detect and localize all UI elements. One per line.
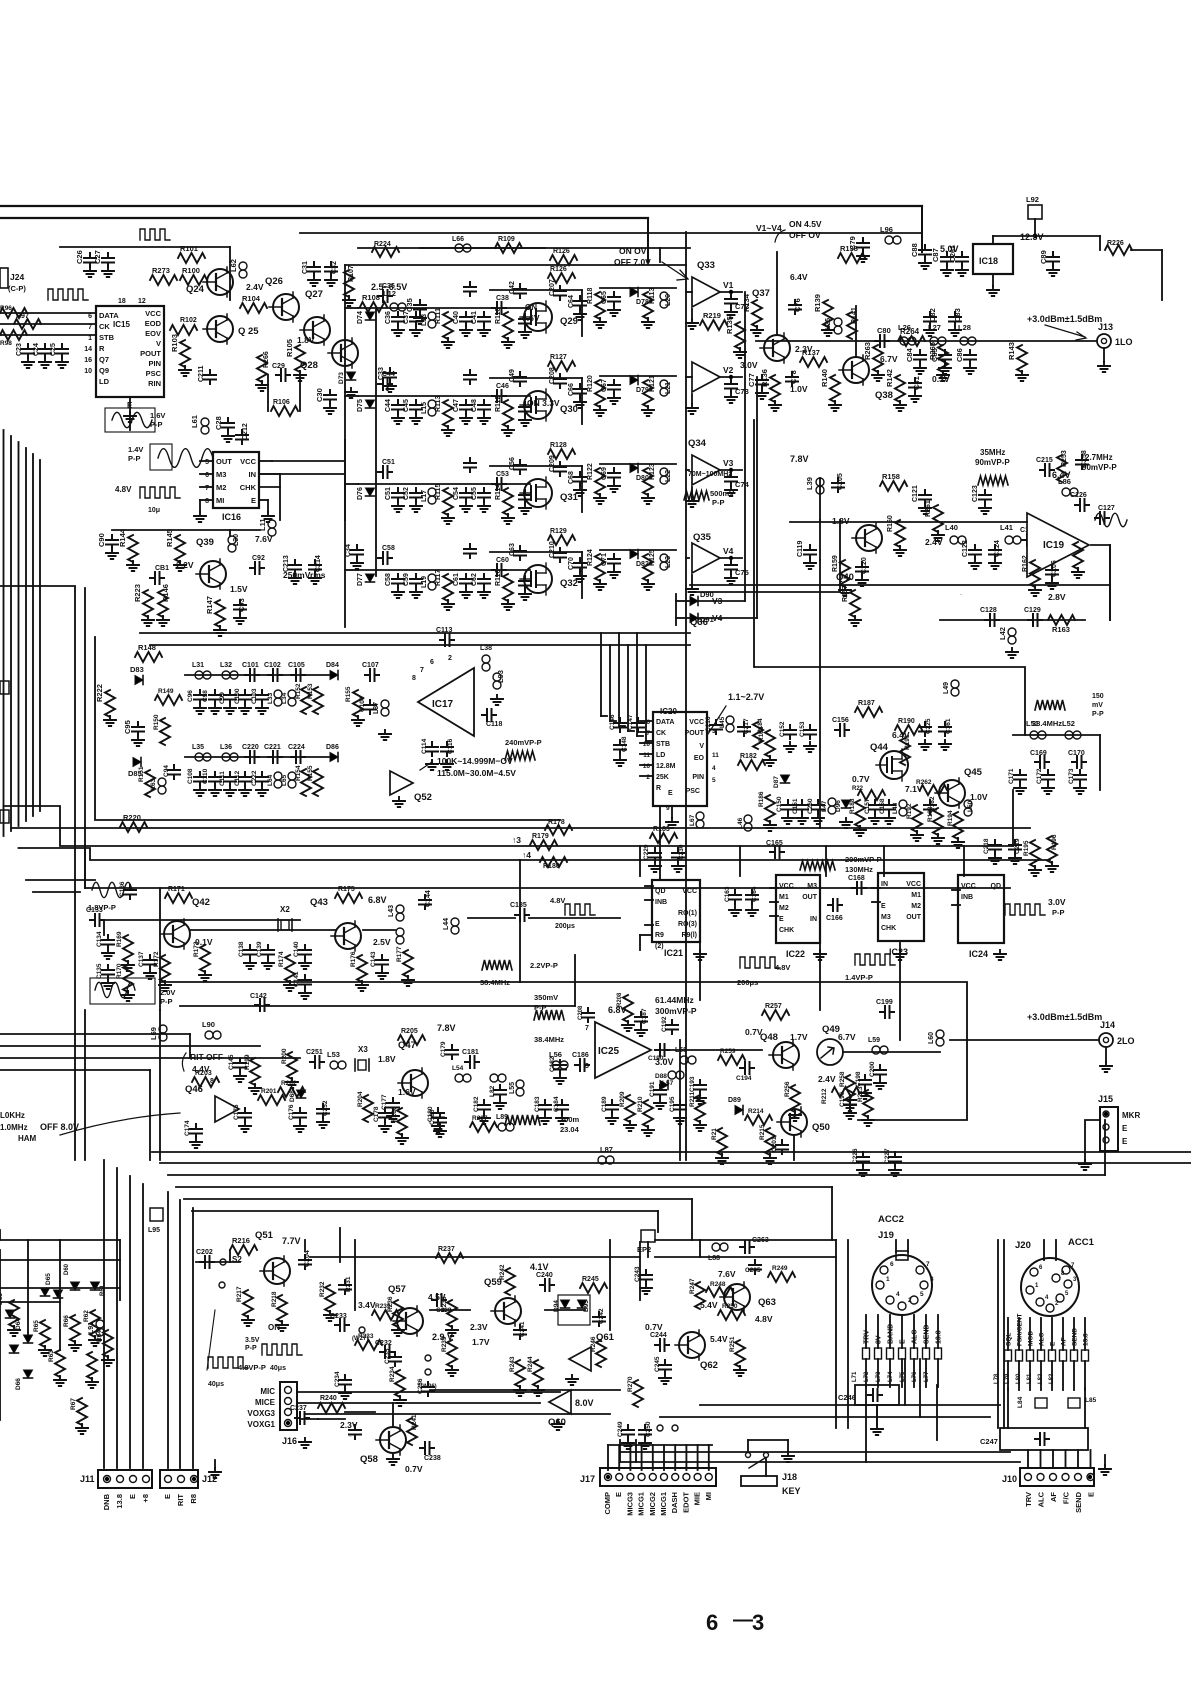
svg-text:C156: C156 [832,717,849,724]
svg-text:R246: R246 [590,1336,597,1352]
svg-text:R147: R147 [205,596,214,614]
svg-text:R211: R211 [689,1091,696,1107]
svg-text:C51: C51 [385,487,392,500]
svg-text:R179: R179 [532,833,549,840]
svg-text:Q50: Q50 [812,1122,830,1133]
svg-text:R117: R117 [435,570,442,586]
svg-text:Q30: Q30 [560,404,578,415]
svg-text:STB: STB [99,333,115,342]
svg-text:ACC2: ACC2 [878,1214,904,1225]
svg-text:C30: C30 [315,388,324,402]
svg-text:7: 7 [88,324,92,331]
svg-text:Q33: Q33 [697,260,715,271]
svg-text:R125: R125 [649,549,656,566]
svg-text:10μ: 10μ [148,507,160,514]
svg-text:L79: L79 [1005,1373,1011,1384]
svg-text:MI: MI [216,496,224,505]
svg-text:MOD: MOD [1028,1331,1035,1346]
svg-text:MICG2: MICG2 [648,1492,657,1516]
svg-text:C66: C66 [568,383,575,396]
svg-text:C58: C58 [385,573,392,586]
svg-text:R239: R239 [441,1336,448,1352]
svg-text:L21: L21 [665,382,672,394]
svg-text:CHK: CHK [779,927,794,934]
svg-text:R121: R121 [649,375,656,392]
svg-text:1: 1 [88,335,92,342]
svg-text:ON: ON [268,1323,280,1332]
svg-text:7: 7 [205,485,209,492]
svg-text:DATA: DATA [99,311,119,320]
svg-text:4.8VP-P: 4.8VP-P [238,1363,266,1372]
svg-text:16: 16 [643,763,651,770]
svg-text:C85: C85 [930,348,939,362]
svg-text:R204: R204 [357,1091,364,1107]
svg-text:V: V [156,339,161,348]
svg-text:12: 12 [138,298,146,305]
svg-text:C110: C110 [202,768,209,784]
svg-text:PSC: PSC [146,369,162,378]
svg-text:6.4V: 6.4V [892,730,910,740]
svg-text:C174: C174 [184,1120,191,1136]
svg-text:L25: L25 [825,318,832,330]
svg-text:C124: C124 [994,540,1001,557]
svg-text:1.7V: 1.7V [790,1032,808,1042]
svg-text:L42: L42 [998,627,1007,640]
svg-text:1.5V: 1.5V [230,584,248,594]
svg-text:J11: J11 [80,1474,95,1484]
svg-text:MIC: MIC [260,1387,275,1396]
svg-text:L76: L76 [912,1371,918,1382]
svg-text:C233: C233 [330,1313,347,1320]
svg-text:QD: QD [991,883,1002,890]
svg-text:R158: R158 [882,472,900,481]
svg-text:E: E [128,1494,137,1499]
svg-text:90mVP-P: 90mVP-P [975,458,1010,467]
svg-text:C140: C140 [293,941,300,957]
svg-text:R102: R102 [180,317,197,324]
svg-text:TRV: TRV [864,1330,871,1344]
svg-text:Q 25: Q 25 [238,326,259,337]
svg-text:E: E [668,790,673,797]
svg-text:DNB: DNB [102,1493,111,1510]
svg-text:R63: R63 [48,1350,55,1362]
svg-text:IC19: IC19 [1043,540,1065,551]
svg-text:R202: R202 [281,1080,297,1087]
svg-text:Q29: Q29 [560,316,578,327]
svg-text:C35: C35 [405,298,414,312]
svg-text:R217: R217 [236,1286,243,1302]
svg-text:2.4V: 2.4V [246,282,264,292]
svg-text:L17: L17 [421,490,428,502]
svg-text:D60: D60 [64,1263,70,1275]
svg-text:VCC: VCC [906,881,921,888]
svg-text:C194: C194 [736,1075,752,1082]
svg-text:CHK: CHK [240,483,257,492]
svg-text:Q51: Q51 [255,1230,274,1241]
svg-text:7.6V: 7.6V [255,534,273,544]
svg-text:C89: C89 [1039,250,1048,264]
svg-text:C24: C24 [33,343,40,356]
svg-text:R109: R109 [498,236,515,243]
svg-text:R196: R196 [1051,834,1058,850]
svg-text:M1: M1 [779,894,789,901]
svg-text:Q34: Q34 [688,438,707,449]
svg-text:R245: R245 [582,1276,599,1283]
svg-text:C242: C242 [598,1308,605,1324]
svg-text:MICG1: MICG1 [637,1492,646,1516]
svg-text:+8: +8 [141,1494,150,1503]
svg-text:Q7: Q7 [99,355,109,364]
svg-text:R136: R136 [760,369,769,387]
svg-text:23.04: 23.04 [560,1125,580,1134]
svg-text:R190: R190 [898,718,915,725]
svg-text:R115: R115 [435,484,442,500]
svg-text:R240: R240 [320,1395,337,1402]
svg-text:C185: C185 [510,902,527,909]
svg-text:C170: C170 [1068,750,1085,757]
svg-text:C200: C200 [869,1061,876,1077]
svg-text:C25: C25 [50,343,57,356]
svg-text:1: 1 [1035,1283,1039,1289]
svg-text:C229: C229 [643,844,650,860]
svg-text:L15: L15 [421,402,428,414]
svg-text:L63: L63 [150,778,157,790]
svg-text:E: E [1087,1492,1096,1497]
svg-text:Q26: Q26 [265,276,283,287]
svg-text:R253: R253 [1061,450,1068,467]
svg-text:R226: R226 [1107,240,1124,247]
svg-text:E: E [1122,1137,1128,1146]
svg-text:R148: R148 [138,643,156,652]
svg-text:C182: C182 [473,1096,480,1112]
svg-text:4.8V: 4.8V [775,963,790,972]
svg-text:D76: D76 [357,487,364,500]
svg-text:R142: R142 [885,369,894,387]
svg-text:C171: C171 [1008,768,1015,784]
svg-text:L43: L43 [388,905,395,917]
svg-text:R195: R195 [1023,840,1030,856]
svg-text:E: E [900,1339,907,1344]
svg-text:4: 4 [712,765,716,772]
svg-text:P-P: P-P [534,1003,547,1012]
svg-text:7.8V: 7.8V [437,1023,456,1033]
svg-text:VCC: VCC [682,888,697,895]
svg-text:7.6V: 7.6V [718,1269,736,1279]
svg-text:C201: C201 [771,1136,778,1152]
svg-text:L82: L82 [1038,1373,1044,1384]
svg-text:16: 16 [84,357,92,364]
svg-text:R259: R259 [720,1048,736,1055]
svg-text:C23: C23 [16,343,23,356]
svg-text:EOV: EOV [145,329,161,338]
svg-text:C61: C61 [453,573,460,586]
svg-text:L13: L13 [421,314,428,326]
svg-text:R223: R223 [133,584,142,602]
svg-text:R183: R183 [653,826,670,833]
svg-text:R140: R140 [820,369,829,387]
svg-text:C93: C93 [237,598,246,612]
svg-text:D65: D65 [45,1273,52,1285]
svg-text:C144: C144 [425,890,432,907]
svg-text:6: 6 [706,1610,718,1635]
svg-text:L82: L82 [489,1085,496,1097]
svg-text:R262: R262 [916,779,932,786]
svg-text:R100: R100 [182,266,200,275]
svg-text:6.4V: 6.4V [790,272,808,282]
svg-text:R174: R174 [278,951,285,967]
svg-text:6: 6 [646,719,650,726]
svg-text:MICE: MICE [255,1398,276,1407]
svg-text:C94: C94 [163,765,170,777]
svg-text:C249: C249 [617,1421,624,1437]
svg-text:C81: C81 [912,376,921,390]
svg-text:C118: C118 [486,721,502,728]
svg-text:↑4: ↑4 [522,850,531,860]
svg-text:11: 11 [712,752,719,759]
svg-text:2: 2 [448,655,452,662]
svg-text:C178: C178 [373,1106,380,1122]
svg-text:J19: J19 [878,1230,894,1241]
svg-text:Q39: Q39 [196,537,214,548]
svg-text:R154: R154 [295,765,302,781]
svg-text:C172: C172 [1036,768,1043,784]
svg-text:FSK/CENT: FSK/CENT [1017,1313,1024,1346]
svg-text:R163: R163 [1052,625,1070,634]
svg-text:R224: R224 [374,241,391,248]
svg-text:C38: C38 [496,295,509,302]
svg-text:C260: C260 [807,798,814,814]
svg-text:C168: C168 [848,875,865,882]
svg-text:+3.0dBm±1.5dBm: +3.0dBm±1.5dBm [1027,1012,1102,1022]
svg-text:C173: C173 [1068,768,1075,784]
svg-text:R103: R103 [170,334,179,352]
svg-text:12.8M: 12.8M [656,763,676,770]
svg-text:C136: C136 [119,881,126,897]
svg-text:J17: J17 [580,1474,595,1484]
svg-text:VCC: VCC [145,309,161,318]
svg-text:C74: C74 [735,480,750,489]
svg-text:C122: C122 [962,540,969,557]
svg-text:C237: C237 [349,1436,352,1438]
svg-text:AF: AF [1061,1337,1068,1346]
svg-text:RO(3): RO(3) [678,921,697,928]
svg-text:MI: MI [704,1492,713,1500]
svg-text:C62: C62 [471,573,478,586]
svg-text:C106: C106 [359,696,366,712]
svg-text:COMP: COMP [603,1492,612,1515]
svg-text:V: V [699,743,704,750]
svg-text:Q57: Q57 [388,1284,406,1295]
svg-text:C247: C247 [980,1437,998,1446]
svg-text:100K~14.999M−OV: 100K~14.999M−OV [437,756,513,766]
svg-text:R263: R263 [863,342,872,360]
svg-text:C138: C138 [238,941,245,957]
svg-text:3.4V: 3.4V [358,1300,376,1310]
svg-text:L64: L64 [267,774,274,786]
svg-text:C32: C32 [331,261,338,274]
svg-text:ON: ON [525,303,537,312]
svg-text:Q24: Q24 [186,284,205,295]
svg-text:R258: R258 [839,1071,846,1087]
svg-text:C84: C84 [905,347,914,362]
svg-text:C90: C90 [97,533,106,547]
svg-text:C108: C108 [187,768,194,784]
svg-text:2.2V: 2.2V [176,560,194,570]
svg-text:35MHz: 35MHz [980,448,1005,457]
svg-text:R112: R112 [495,396,502,412]
svg-text:C60: C60 [496,557,509,564]
svg-text:CK: CK [656,730,666,737]
svg-text:Q45: Q45 [964,767,983,778]
svg-text:L20: L20 [665,294,672,306]
svg-text:VCC: VCC [961,883,976,890]
svg-text:R151: R151 [138,766,145,782]
svg-text:R66: R66 [63,1315,70,1327]
svg-text:R266: R266 [263,351,270,368]
svg-text:D77: D77 [357,573,364,586]
svg-text:1.8V: 1.8V [378,1054,396,1064]
svg-text:2LO: 2LO [1117,1036,1135,1046]
svg-text:R108: R108 [362,293,380,302]
svg-text:PIN: PIN [148,359,161,368]
svg-text:C29: C29 [272,363,285,370]
svg-text:VCC: VCC [689,719,704,726]
svg-text:2.3V: 2.3V [470,1322,488,1332]
svg-text:8: 8 [205,498,209,505]
svg-text:J16: J16 [282,1436,297,1446]
svg-text:L95: L95 [148,1227,160,1234]
svg-text:R144: R144 [118,528,127,547]
svg-text:C222: C222 [251,770,258,786]
svg-text:C227: C227 [884,1148,891,1164]
svg-text:Q37: Q37 [752,288,770,299]
svg-text:2.5V: 2.5V [373,937,391,947]
svg-text:Q32: Q32 [560,578,578,589]
svg-text:C152: C152 [779,721,786,737]
svg-text:L69: L69 [149,1027,158,1040]
svg-text:F/C: F/C [1062,1491,1071,1504]
svg-text:VOXG1: VOXG1 [247,1420,275,1429]
svg-text:CB1: CB1 [155,565,169,572]
svg-text:(2): (2) [655,943,664,950]
svg-text:350mV: 350mV [534,993,558,1002]
svg-text:R175: R175 [338,886,355,893]
svg-text:L32: L32 [220,662,232,669]
svg-text:L80: L80 [1016,1373,1022,1384]
svg-text:2.7MHz: 2.7MHz [1085,453,1113,462]
svg-text:IC24: IC24 [969,949,988,959]
svg-text:0.3V: 0.3V [932,374,950,384]
svg-text:L78: L78 [994,1373,1000,1384]
svg-text:L50: L50 [967,800,974,812]
svg-text:L96: L96 [880,225,893,234]
svg-text:ALC: ALC [1039,1332,1046,1346]
svg-text:L54: L54 [452,1065,464,1072]
svg-text:6.7V: 6.7V [880,354,898,364]
svg-text:P-P: P-P [245,1345,257,1352]
svg-text:R118: R118 [587,288,594,304]
svg-text:C127: C127 [1098,505,1115,512]
svg-text:C190: C190 [648,1055,664,1062]
svg-text:D87: D87 [773,776,780,788]
svg-text:MKR: MKR [1122,1111,1140,1120]
svg-text:25K: 25K [656,774,669,781]
svg-text:RO(1): RO(1) [678,910,697,917]
svg-text:VCC: VCC [240,457,256,466]
svg-text:R185: R185 [758,726,765,742]
svg-text:R270: R270 [627,1376,634,1392]
svg-text:2.4V: 2.4V [925,537,943,547]
svg-text:SQL: SQL [1006,1333,1013,1346]
svg-text:R120: R120 [587,375,594,392]
svg-text:C237: C237 [290,1405,307,1412]
svg-text:R232: R232 [319,1281,326,1297]
svg-text:2.8V: 2.8V [1048,592,1066,602]
svg-text:R105: R105 [285,339,294,357]
svg-text:13.8: 13.8 [115,1494,124,1509]
svg-text:LD: LD [656,752,665,759]
svg-text:C47: C47 [453,399,460,412]
svg-text:E: E [251,496,256,505]
svg-text:C40: C40 [453,311,460,324]
svg-text:C88: C88 [910,243,919,257]
svg-text:C220: C220 [242,744,259,751]
svg-text:C206: C206 [1051,560,1058,577]
svg-text:C219: C219 [1014,838,1021,854]
svg-text:C212: C212 [242,423,249,440]
svg-text:OUT: OUT [906,914,922,921]
svg-text:C105: C105 [288,662,305,669]
svg-text:C193: C193 [689,1076,696,1092]
svg-text:7.8V: 7.8V [790,454,809,464]
svg-text:L88: L88 [708,1255,720,1262]
svg-text:40μs: 40μs [208,1381,224,1388]
svg-text:C58: C58 [382,545,395,552]
svg-text:R107: R107 [348,265,355,282]
svg-text:C121: C121 [912,485,919,502]
svg-text:C112: C112 [234,770,241,786]
svg-text:L31: L31 [192,662,204,669]
svg-text:R251: R251 [729,1336,736,1352]
svg-text:L47: L47 [821,800,828,812]
svg-text:12.3V: 12.3V [1020,232,1044,242]
svg-text:R67: R67 [70,1398,77,1410]
svg-text:4.8V: 4.8V [550,896,565,905]
svg-text:240mVP-P: 240mVP-P [505,738,542,747]
svg-text:L72: L72 [864,1371,870,1382]
svg-text:2.2VP-P: 2.2VP-P [530,961,558,970]
svg-text:C98: C98 [202,690,209,702]
svg-text:R152: R152 [295,683,302,699]
svg-text:C230: C230 [678,844,685,860]
svg-text:R233: R233 [358,1333,374,1340]
svg-text:1LO: 1LO [1115,337,1133,347]
svg-text:C184: C184 [553,1096,560,1112]
svg-text:5: 5 [920,1291,924,1298]
svg-text:R126: R126 [553,248,570,255]
svg-text:C150: C150 [776,796,783,812]
svg-text:C176: C176 [288,1104,295,1120]
svg-text:6: 6 [890,1261,894,1268]
svg-text:L39: L39 [805,477,814,490]
svg-text:C134: C134 [96,931,103,947]
svg-text:3.0V: 3.0V [1048,897,1066,907]
svg-text:C68: C68 [568,471,575,484]
svg-text:OFF 8.0V: OFF 8.0V [40,1122,79,1132]
svg-text:R218: R218 [271,1291,278,1307]
svg-text:C186: C186 [572,1052,589,1059]
svg-text:C51: C51 [382,459,395,466]
